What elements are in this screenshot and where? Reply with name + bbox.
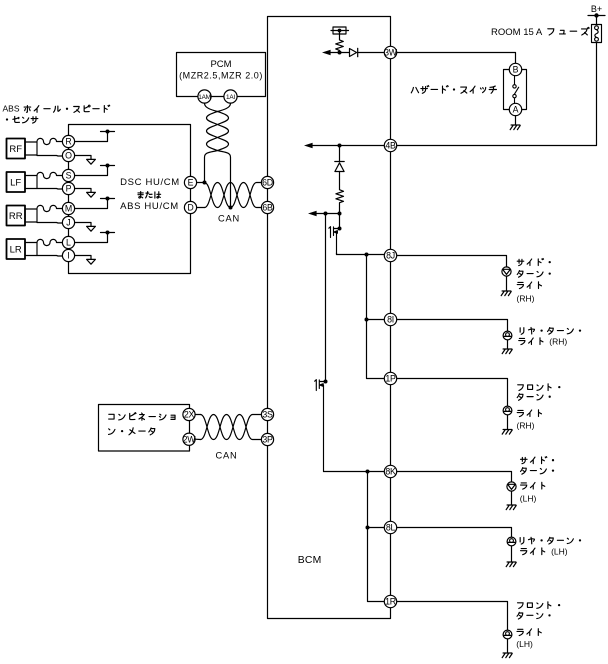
diode D2 (335, 146, 344, 172)
wire: shield tap of RF pair (75, 132, 115, 142)
terminal 1AI (224, 90, 237, 103)
label CAN (lower) (215, 450, 237, 460)
svg-text:(LH): (LH) (551, 546, 568, 556)
wire: T2 source to 8K (324, 471, 385, 473)
terminal 2W (183, 433, 197, 445)
wire: twisted pair from RF (37, 138, 62, 156)
label front turn light (RH) (517, 384, 561, 431)
resistor R2 (336, 172, 344, 214)
terminal 6B (BCM) (261, 201, 273, 213)
terminal S (62, 169, 74, 181)
wire: 8I to rear turn light (RH) (397, 320, 508, 332)
svg-text:B: B (513, 65, 519, 75)
svg-text:ABS: ABS (3, 104, 20, 114)
svg-text:(MZR2.5,MZR 2.0): (MZR2.5,MZR 2.0) (179, 71, 263, 81)
lamp: rear turn light (LH) (507, 537, 516, 546)
svg-text:P: P (66, 184, 72, 194)
terminal 3P (BCM) (261, 433, 273, 445)
terminal M (62, 202, 74, 214)
junction dot 8K bus (366, 470, 370, 474)
svg-text:D: D (187, 203, 193, 213)
terminal J (62, 216, 74, 228)
lamp: front turn light (LH) (503, 630, 512, 639)
wire: gate row down to T2 drain (325, 214, 327, 382)
svg-text:CAN: CAN (218, 214, 240, 224)
sensor RF connector (25, 142, 37, 155)
svg-text:DSC HU/CM: DSC HU/CM (120, 177, 180, 188)
junction dot gate row / T1 branch (338, 212, 342, 216)
terminal 4B (BCM) (384, 139, 396, 151)
junction dot 4B row (338, 144, 342, 148)
terminal L (62, 236, 74, 248)
terminal A (hazard) (509, 103, 521, 115)
terminal 3S (BCM) (261, 408, 273, 420)
svg-text:J: J (66, 218, 70, 228)
fuse ROOM 15A (592, 25, 602, 43)
svg-text:1P: 1P (385, 374, 396, 384)
off-page arrow (4B row) (304, 143, 313, 148)
label rear turn light (RH) (519, 327, 581, 346)
label side turn light (LH) (520, 457, 554, 504)
junction dot T2 drain (324, 380, 328, 384)
wire + ground below 1R lamp (502, 639, 512, 658)
lamp: front turn light (RH) (503, 406, 512, 415)
wire: shield tap of LF pair (75, 166, 115, 176)
svg-text:(RH): (RH) (517, 293, 535, 303)
BCM box (268, 17, 391, 619)
junction dot 8I bus (365, 318, 369, 322)
wire: 8K to side turn light (LH) (397, 472, 512, 483)
svg-text:ROOM 15 A: ROOM 15 A (491, 27, 543, 38)
wire: twisted pair from LF (37, 172, 62, 189)
CAN twisted pair meter to BCM (195, 415, 261, 440)
terminal P (62, 182, 74, 194)
off-page arrow (top) (322, 50, 331, 55)
wire: shield tap of LR pair (75, 233, 115, 243)
junction dot shield RF (106, 130, 110, 134)
CAN twisted pair DSC to BCM (horizontal) (197, 183, 262, 208)
wire: D1 to 3W (358, 52, 385, 54)
sensor LF connector (25, 176, 37, 189)
junction dot shield LF (106, 164, 110, 168)
wire + ground from P (75, 189, 96, 198)
svg-text:PCM: PCM (210, 59, 231, 70)
terminal R (62, 135, 74, 147)
sensor LF: box (7, 172, 26, 192)
svg-text:8I: 8I (387, 315, 394, 325)
terminal E (184, 176, 196, 188)
terminal 6D (BCM) (261, 176, 273, 188)
svg-text:(LH): (LH) (520, 494, 537, 504)
junction dot shield LR (106, 231, 110, 235)
transistor T2 (315, 380, 326, 472)
transistor T1 (329, 227, 340, 255)
svg-text:8K: 8K (385, 467, 396, 477)
hazard sounder (boxed element) (331, 27, 349, 34)
wire + ground below hazard (510, 116, 520, 130)
svg-text:1AI: 1AI (226, 94, 235, 101)
lamp: side turn light (LH) (507, 482, 516, 491)
label side turn light (RH) (517, 259, 551, 304)
sensor RF: box (7, 139, 26, 159)
svg-text:R: R (65, 137, 71, 147)
terminal I (62, 249, 74, 261)
junction dot shield RR (106, 197, 110, 201)
B+ terminal (588, 4, 605, 25)
junction dot 8L bus (366, 526, 370, 530)
PCM box (177, 53, 266, 97)
wire: fuse to 4B row (397, 43, 597, 146)
svg-text:M: M (65, 204, 72, 214)
sensor RR connector (25, 209, 37, 222)
DSC/ABS HU/CM box (69, 125, 191, 274)
svg-text:(LH): (LH) (516, 639, 533, 649)
wire + ground below 8J lamp (501, 276, 511, 296)
sensor LR connector (25, 243, 37, 256)
wire + ground from O (75, 156, 96, 165)
wire: shield tap of RR pair (75, 199, 115, 209)
terminal 1AM (198, 90, 211, 103)
svg-text:(RH): (RH) (549, 336, 567, 346)
svg-text:8J: 8J (386, 251, 395, 261)
svg-text:L: L (66, 238, 71, 248)
label rear turn light (LH) (520, 537, 581, 556)
svg-text:3S: 3S (262, 410, 273, 420)
junction dot R1/wire (338, 51, 342, 55)
svg-text:3W: 3W (384, 48, 398, 58)
svg-text:E: E (188, 178, 194, 188)
junction dot 8J bus (365, 253, 369, 257)
label CAN (upper) (218, 214, 240, 224)
label ROOM 15 A fuse (491, 27, 589, 38)
svg-text:6D: 6D (262, 178, 273, 188)
junction dot T1 drain (338, 227, 342, 231)
wire: 3W to hazard switch (397, 53, 516, 63)
wire: T1 source to 8J (337, 253, 385, 255)
wire + ground from J (75, 223, 96, 232)
label front turn light (LH) (516, 602, 560, 649)
wire + ground below 8I lamp (502, 340, 512, 354)
off-page arrow (gate row) (308, 211, 317, 216)
svg-text:LR: LR (10, 244, 22, 255)
svg-text:CAN: CAN (215, 450, 237, 460)
junction dot CAN-L (229, 206, 233, 210)
svg-text:1AM: 1AM (198, 94, 211, 101)
resistor R1 (336, 31, 344, 53)
diode D1 (350, 48, 358, 56)
terminal 3W (BCM) (384, 46, 398, 58)
wire: 8L to rear turn light (LH) (397, 528, 512, 538)
wire: arrow to 4B (313, 145, 385, 147)
svg-text:B+: B+ (591, 4, 602, 14)
wire: 1P to front turn light (RH) (397, 379, 508, 407)
wire: down to T1 drain (339, 214, 341, 229)
lamp: rear turn light (RH) (503, 331, 512, 340)
svg-text:4B: 4B (385, 141, 396, 151)
svg-text:A: A (513, 105, 519, 115)
wire: arrow to diode D1 (331, 52, 350, 54)
terminal 1R (BCM) (384, 595, 396, 607)
junction dot CAN-H (203, 181, 207, 185)
svg-text:O: O (65, 151, 72, 161)
svg-text:RF: RF (9, 144, 22, 155)
svg-text:6B: 6B (262, 203, 273, 213)
wire: bus 8J to 1P (367, 255, 385, 379)
wire: gate row (317, 213, 340, 215)
sensor RR: box (7, 206, 26, 226)
terminal 8K (BCM) (384, 465, 396, 477)
wire: twisted pair from LR (37, 239, 62, 256)
terminal 2X (183, 408, 195, 420)
label hazard switch (411, 86, 496, 94)
wire: bus to 8I (367, 319, 385, 321)
wire: bus 8K to 1R (368, 472, 385, 602)
wire + ground below 1P lamp (502, 415, 512, 434)
svg-text:2X: 2X (184, 410, 195, 420)
terminal 1P (BCM) (384, 372, 396, 384)
svg-text:1R: 1R (385, 597, 396, 607)
svg-text:LF: LF (10, 177, 21, 188)
wire + ground from I (75, 256, 96, 265)
svg-text:RR: RR (9, 211, 23, 222)
wire: 1R to front turn light (LH) (397, 602, 508, 631)
lamp: side turn light (RH) (502, 267, 511, 276)
svg-text:S: S (66, 171, 72, 181)
terminal 8I (BCM) (384, 313, 396, 325)
terminal D (184, 201, 196, 213)
terminal B (hazard) (509, 63, 521, 75)
label: ABS wheel speed sensor (3, 104, 110, 124)
svg-text:I: I (67, 251, 69, 261)
terminal 8L (BCM) (384, 521, 396, 533)
terminal O (62, 149, 74, 161)
svg-text:8L: 8L (386, 523, 396, 533)
wire + ground below 8K lamp (506, 491, 516, 510)
junction dot gate row / T2 branch (324, 212, 328, 216)
wire: twisted pair from RR (37, 205, 62, 223)
wire: 8J to side turn light (RH) (397, 256, 507, 268)
svg-text:3P: 3P (262, 435, 273, 445)
wire + ground below 8L lamp (506, 546, 516, 567)
svg-text:2W: 2W (183, 434, 197, 444)
CAN twisted pair PCM to DSC (vertical) (205, 103, 231, 207)
svg-text:ABS HU/CM: ABS HU/CM (120, 201, 179, 212)
hazard switch (504, 70, 527, 110)
svg-text:BCM: BCM (298, 555, 322, 566)
svg-text:(RH): (RH) (517, 421, 535, 431)
terminal 8J (BCM) (384, 249, 396, 261)
sensor LR: box (7, 239, 26, 259)
combination meter box (99, 405, 190, 452)
wire: bus to 8L (368, 527, 385, 529)
